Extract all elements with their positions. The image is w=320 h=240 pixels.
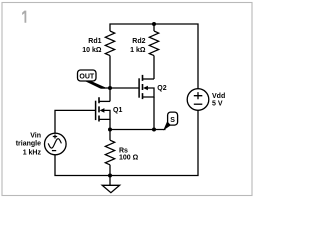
wire: S node horizontal bbox=[110, 129, 166, 131]
wire: OUT node to Q2 gate bbox=[110, 87, 139, 89]
resistor Rd1 bbox=[82, 31, 114, 56]
wire: Rd1 bottom to OUT node bbox=[109, 56, 111, 88]
voltage source Vdd bbox=[187, 89, 225, 111]
wire: Q1 source down to S node bbox=[109, 119, 111, 129]
svg-text:Q1: Q1 bbox=[113, 107, 122, 114]
transistor Q1 (NMOS) bbox=[96, 97, 123, 121]
svg-text:5 V: 5 V bbox=[212, 101, 223, 108]
svg-text:S: S bbox=[170, 117, 175, 124]
svg-text:Rd1: Rd1 bbox=[88, 38, 101, 45]
svg-text:1 kHz: 1 kHz bbox=[23, 149, 42, 156]
resistor Rs bbox=[105, 130, 138, 176]
transistor Q2 (NMOS) bbox=[139, 75, 167, 99]
wire: Q1 drain up to OUT node bbox=[109, 88, 111, 101]
junction: top of Rd2 bbox=[152, 22, 156, 26]
net flag S bbox=[163, 112, 177, 130]
wire: Rd2 bottom to Q2 drain bbox=[153, 56, 155, 79]
svg-text:Rd2: Rd2 bbox=[132, 38, 145, 45]
net flag OUT bbox=[78, 70, 111, 89]
junction: Q2 source at S wire bbox=[152, 128, 156, 132]
svg-text:Vdd: Vdd bbox=[212, 93, 225, 100]
resistor Rd2 bbox=[130, 31, 159, 56]
schematic sheet frame bbox=[2, 3, 252, 196]
node OUT junction bbox=[108, 86, 112, 90]
svg-text:OUT: OUT bbox=[79, 73, 95, 80]
node S junction at Q1 source / Rs top bbox=[108, 128, 112, 132]
wire: Vdd bottom down and bottom rail to Vin bbox=[55, 110, 198, 175]
svg-text:Rs: Rs bbox=[119, 147, 128, 154]
svg-text:10 kΩ: 10 kΩ bbox=[82, 47, 102, 54]
wire: Q1 gate to Vin top bbox=[55, 110, 96, 133]
wire: Rd2 top lead bbox=[153, 24, 155, 31]
svg-text:100 Ω: 100 Ω bbox=[119, 155, 139, 162]
svg-text:1 kΩ: 1 kΩ bbox=[130, 47, 146, 54]
svg-text:Vin: Vin bbox=[30, 133, 41, 140]
svg-text:Q2: Q2 bbox=[157, 85, 166, 92]
svg-text:triangle: triangle bbox=[16, 141, 41, 148]
wire: top Vdd rail from Rd1 top to Vdd source top bbox=[110, 24, 198, 89]
sheet number 1 bbox=[22, 11, 26, 23]
voltage source Vin (triangle 1 kHz) bbox=[16, 133, 66, 157]
junction: ground node on bottom rail bbox=[108, 174, 112, 178]
wire: Q2 source down to S node bbox=[153, 97, 155, 130]
ground bbox=[102, 176, 119, 193]
